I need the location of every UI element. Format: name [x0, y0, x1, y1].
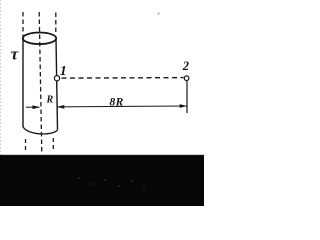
dimension line from cylinder edge to point-2 line (8R): [57, 105, 187, 108]
wire: cylinder surface continuation dashed right (top): [55, 13, 57, 36]
node point 2: [184, 76, 189, 81]
scan noise specks inside black bar: [78, 177, 145, 188]
svg-text:τ: τ: [11, 45, 19, 64]
arrowhead pointing left at cylinder edge: [57, 105, 64, 109]
black bar top edge transition: [0, 154, 204, 156]
arrowhead pointing right at axis: [33, 105, 40, 109]
scan speck top right: [158, 13, 160, 15]
wire: dashed line from point 1 to point 2: [62, 77, 184, 80]
cylinder left edge: [22, 39, 24, 128]
svg-text:1: 1: [60, 64, 67, 79]
wire: cylinder surface continuation dashed left (top): [22, 12, 24, 37]
arrowhead pointing right at point-2 vertical: [180, 104, 187, 108]
svg-text:8R: 8R: [110, 97, 124, 109]
node point 1 on cylinder surface: [54, 76, 59, 81]
wire: cylinder axis dashed center line: [39, 12, 42, 153]
cylinder right edge: [56, 39, 58, 130]
black censor bar at bottom: [0, 155, 204, 206]
cylinder top ellipse: [23, 33, 56, 45]
cylinder bottom arc: [23, 127, 58, 135]
svg-text:R: R: [46, 95, 54, 106]
wire: vertical extension below point 2: [186, 81, 188, 113]
svg-text:2: 2: [182, 59, 189, 73]
wire: cylinder surface continuation dashed left (bottom): [25, 139, 27, 153]
dimension line segment left of axis (R arrow tail): [26, 106, 40, 108]
left scan-edge noise: [0, 0, 2, 155]
wire: cylinder surface continuation dashed right (bottom): [52, 138, 54, 152]
